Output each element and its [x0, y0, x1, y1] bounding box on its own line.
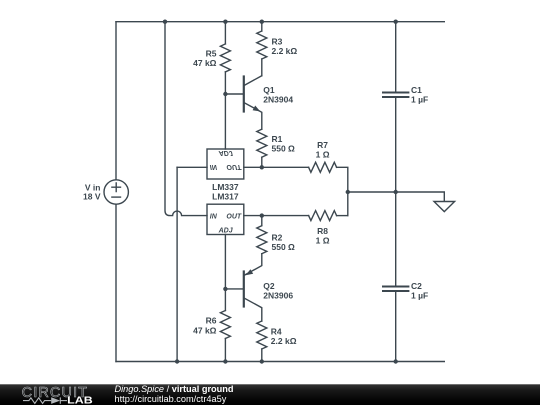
svg-text:LM317: LM317 — [212, 191, 239, 201]
svg-text:47 kΩ: 47 kΩ — [193, 58, 217, 68]
wire from top rail down to LM317 IN with corner and hop over x177 wire — [165, 22, 207, 216]
wire top rail to R3 — [261, 22, 263, 31]
svg-text:R3: R3 — [272, 37, 283, 47]
resistor R7 1 Ohm — [309, 162, 337, 172]
resistor R4 2.2 kOhm — [257, 321, 267, 349]
node dot bottom rail x396 — [394, 359, 398, 363]
svg-text:Q1: Q1 — [263, 85, 275, 95]
capacitor C1 1 uF plates — [383, 93, 408, 98]
node dot LM317 OUT — [260, 213, 264, 217]
ground symbol — [434, 202, 455, 212]
svg-text:2.2 kΩ: 2.2 kΩ — [271, 336, 297, 346]
arrow of Q2 emitter — [246, 269, 254, 275]
svg-text:2N3906: 2N3906 — [263, 290, 293, 300]
plus sign of source — [112, 183, 121, 192]
svg-text:1 µF: 1 µF — [411, 94, 428, 104]
svg-text:1 µF: 1 µF — [411, 291, 428, 301]
resistor R1 550 Ohm — [257, 129, 267, 157]
node dot top rail x165 — [163, 20, 167, 24]
wire bottom rail — [116, 361, 444, 363]
wire LM337 IN down to bottom rail — [176, 167, 178, 361]
svg-text:ADJ: ADJ — [218, 227, 234, 234]
wire virtual ground node to ground symbol — [348, 192, 445, 202]
wire left rail upper (Vin+ to top rail) — [115, 22, 117, 180]
svg-text:R4: R4 — [271, 327, 282, 337]
wire top rail to R5 — [224, 22, 226, 44]
voltage source V1 V in 18 V circle — [104, 180, 128, 204]
logo diode triangle — [51, 397, 60, 404]
node dot Q1 base — [223, 92, 227, 96]
wire R1 to LM337 OUT node — [261, 157, 263, 167]
svg-text:550 Ω: 550 Ω — [272, 242, 296, 252]
node dot bottom rail x177 — [175, 359, 179, 363]
resistor R8 1 Ohm — [309, 211, 337, 221]
capacitor C2 1 uF plates — [383, 287, 408, 292]
svg-text:18 V: 18 V — [83, 192, 101, 202]
svg-text:Q2: Q2 — [263, 281, 275, 291]
svg-text:550 Ω: 550 Ω — [272, 144, 296, 154]
svg-text:R7: R7 — [317, 140, 328, 150]
resistor R2 550 Ohm — [257, 216, 267, 254]
svg-text:R5: R5 — [206, 48, 217, 58]
wire top rail — [116, 21, 444, 23]
svg-text:2.2 kΩ: 2.2 kΩ — [272, 46, 298, 56]
transistor Q2 collector diagonal — [244, 298, 262, 321]
node dot Q2 base — [223, 287, 227, 291]
wire C1 to virtual ground node to C2 — [395, 98, 397, 286]
node dot top rail x396 — [394, 20, 398, 24]
wire R3 to Q1 collector — [261, 59, 263, 76]
node dot bottom rail x225 — [223, 359, 227, 363]
wire top rail to C1 — [395, 22, 397, 92]
svg-text:http://circuitlab.com/ctr4a5y: http://circuitlab.com/ctr4a5y — [115, 394, 227, 404]
svg-text:1 Ω: 1 Ω — [316, 235, 330, 245]
svg-text:OUT: OUT — [226, 163, 242, 170]
svg-text:1 Ω: 1 Ω — [316, 149, 330, 159]
wire R6 to bottom rail — [224, 339, 226, 362]
node dot top rail x225 — [223, 20, 227, 24]
svg-text:R1: R1 — [272, 134, 283, 144]
node dot virtual ground at R7R8 — [346, 190, 350, 194]
transistor Q1 2N3904 collector diagonal — [244, 76, 262, 86]
svg-text:IN: IN — [210, 163, 218, 170]
svg-text:R2: R2 — [272, 232, 283, 242]
footer black bar — [0, 384, 540, 405]
svg-text:OUT: OUT — [226, 213, 242, 220]
pin labels LM337 IN OUT ADJ (flipped vertically) — [210, 149, 242, 170]
resistor R5 47 kOhm — [220, 44, 230, 72]
wire left rail lower (Vin- to bottom rail) — [115, 204, 117, 361]
svg-text:ADJ: ADJ — [218, 149, 234, 156]
arrow of Q1 emitter — [253, 106, 261, 112]
wire R7 to right corner — [337, 167, 348, 215]
wire R8 to right corner — [337, 215, 348, 217]
wire R5 to Q1 base node to LM337 ADJ — [224, 72, 226, 149]
svg-text:IN: IN — [210, 213, 218, 220]
svg-text:LAB: LAB — [67, 395, 93, 405]
wire LM337 OUT pin to R7 — [244, 166, 309, 168]
svg-text:47 kΩ: 47 kΩ — [193, 325, 217, 335]
wire R2 to Q2 emitter — [244, 254, 262, 276]
regulator U1 LM337 box — [207, 149, 244, 179]
transistor Q2 2N3906 base bar — [243, 272, 245, 307]
node dot top rail x262 — [260, 20, 264, 24]
svg-text:R8: R8 — [317, 226, 328, 236]
node dot virtual ground at caps — [394, 190, 398, 194]
svg-text:R6: R6 — [206, 316, 217, 326]
resistor R6 47 kOhm — [220, 311, 230, 339]
minus sign of source — [112, 196, 121, 198]
wire C2 to bottom rail — [395, 292, 397, 362]
svg-text:2N3904: 2N3904 — [263, 94, 293, 104]
transistor Q1 base bar — [243, 77, 245, 112]
transistor Q1 emitter diagonal — [244, 103, 262, 130]
resistor R3 2.2 kOhm — [257, 31, 267, 59]
wire R4 to bottom rail — [261, 349, 263, 362]
wire Q2 base — [225, 288, 243, 290]
node dot bottom rail x262 — [260, 359, 264, 363]
regulator U2 LM317 box — [207, 204, 244, 234]
node dot LM337 OUT — [260, 165, 264, 169]
wire LM317 ADJ down to Q2 base node — [224, 235, 226, 311]
wire LM317 OUT pin to R8 — [244, 215, 309, 217]
logo resistor and diode glyph — [23, 397, 67, 403]
wire Q1 base — [225, 93, 243, 95]
wire LM337 IN pin — [177, 166, 207, 168]
svg-text:Dingo.Spice / virtual ground: Dingo.Spice / virtual ground — [115, 384, 234, 394]
